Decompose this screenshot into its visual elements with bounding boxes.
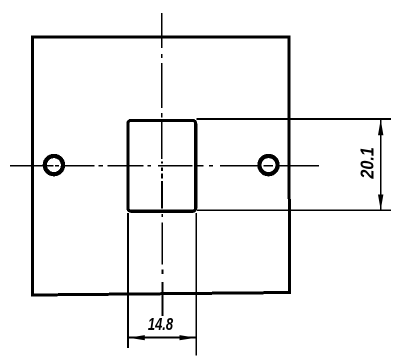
arrowhead left (14.8) [129, 335, 145, 340]
horizontal centerline [10, 165, 319, 167]
arrowhead down (20.1 bottom) [378, 195, 383, 211]
extension line bottom of cutout (for 20.1) [197, 209, 391, 211]
dimension line 20.1 [380, 119, 382, 210]
extension line top of cutout (for 20.1) [197, 118, 391, 120]
hole left [45, 156, 63, 174]
panel outline (large square) [32, 37, 289, 295]
arrowhead right (14.8) [180, 335, 196, 340]
extension line left of cutout (for 14.8) [127, 213, 129, 348]
svg-text:14.8: 14.8 [148, 315, 174, 334]
vertical centerline [161, 13, 164, 316]
hole right [259, 156, 277, 174]
svg-text:20.1: 20.1 [356, 147, 377, 179]
arrowhead up (20.1 top) [378, 119, 383, 135]
extension line right of cutout (for 14.8) [195, 213, 197, 356]
cutout (rounded square) [128, 120, 196, 211]
dimension line 14.8 [128, 337, 196, 339]
